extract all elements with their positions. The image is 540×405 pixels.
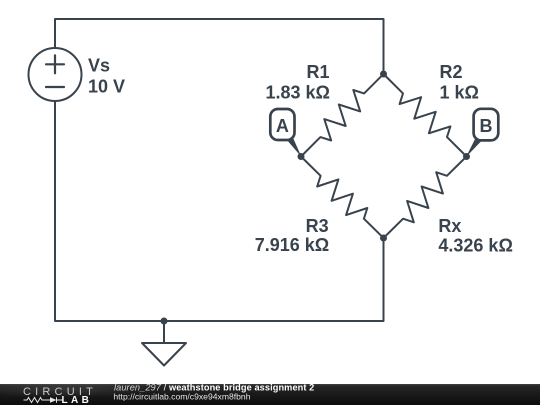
svg-text:R2: R2 [440, 62, 463, 82]
svg-text:R3: R3 [306, 216, 329, 236]
svg-text:B: B [480, 116, 493, 136]
svg-text:1 kΩ: 1 kΩ [440, 82, 479, 102]
svg-text:4.326 kΩ: 4.326 kΩ [438, 235, 513, 255]
svg-text:R1: R1 [306, 62, 329, 82]
svg-text:A: A [276, 116, 289, 136]
svg-text:7.916 kΩ: 7.916 kΩ [255, 235, 330, 255]
svg-text:http://circuitlab.com/c9xe94xm: http://circuitlab.com/c9xe94xm8fbnh [113, 391, 250, 401]
svg-text:Vs: Vs [88, 56, 110, 76]
svg-text:Rx: Rx [438, 216, 461, 236]
svg-text:10 V: 10 V [88, 76, 125, 96]
svg-text:1.83 kΩ: 1.83 kΩ [266, 82, 330, 102]
svg-text:LAB: LAB [62, 395, 93, 405]
